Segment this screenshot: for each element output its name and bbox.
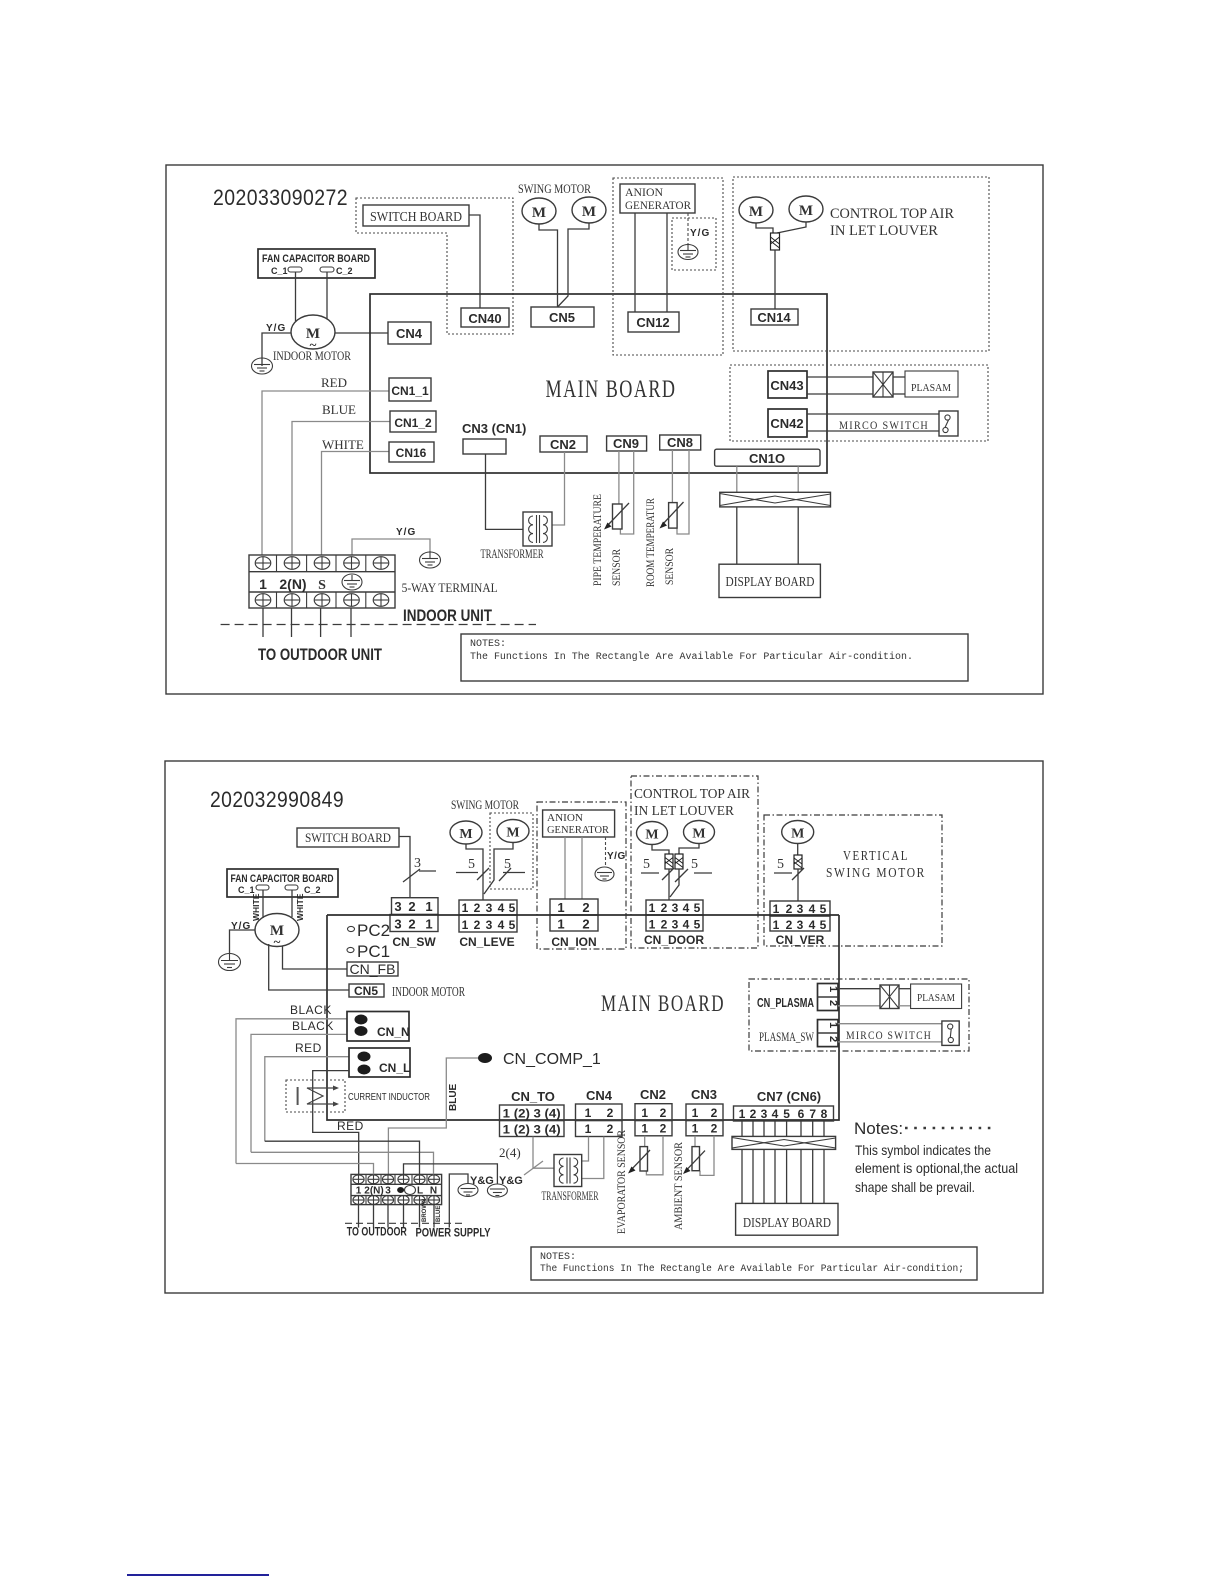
- svg-text:1: 1: [739, 1107, 746, 1121]
- svg-text:CN_SW: CN_SW: [392, 935, 436, 949]
- bus marker 5 vertical: [774, 857, 804, 880]
- svg-text:FAN CAPACITOR BOARD: FAN CAPACITOR BOARD: [231, 873, 334, 885]
- svg-text:~: ~: [274, 934, 281, 949]
- svg-text:CN3: CN3: [691, 1087, 717, 1102]
- connector CN3 b: [686, 1087, 723, 1136]
- wire C_2 to motor: [326, 272, 328, 319]
- capacitor C_1: [288, 267, 302, 272]
- wire CN2 to transformer: [552, 452, 564, 525]
- svg-text:SWITCH BOARD: SWITCH BOARD: [370, 210, 462, 225]
- svg-text:CN14: CN14: [757, 310, 791, 325]
- svg-text:1: 1: [557, 900, 564, 915]
- svg-text:3: 3: [672, 918, 679, 932]
- screw terminals top row: [255, 557, 389, 570]
- wire CN8 pin2: [677, 450, 689, 534]
- svg-text:CN12: CN12: [636, 315, 669, 330]
- svg-text:CN8: CN8: [667, 435, 693, 450]
- connector CN_LEVE: [459, 900, 517, 949]
- connector CN4: [388, 322, 431, 344]
- svg-text:RED: RED: [295, 1041, 322, 1055]
- svg-text:4: 4: [809, 918, 816, 932]
- svg-text:M: M: [582, 204, 596, 220]
- wire plasma a: [838, 988, 880, 990]
- svg-text:PLASAM: PLASAM: [911, 382, 951, 394]
- svg-text:CN9: CN9: [613, 436, 639, 451]
- leads to outdoor: [359, 1205, 404, 1228]
- svg-text:CN_ION: CN_ION: [551, 935, 596, 949]
- wire anion pin2: [666, 213, 668, 312]
- svg-text:3: 3: [486, 918, 493, 932]
- wire black 1: [236, 1019, 347, 1164]
- svg-text:INDOOR MOTOR: INDOOR MOTOR: [392, 985, 465, 1000]
- louver motor M-C: [739, 197, 773, 223]
- wire CN10 b: [797, 466, 799, 492]
- svg-text:4: 4: [809, 902, 816, 916]
- svg-text:Notes:: Notes:: [854, 1119, 903, 1138]
- dotted box optional motor: [490, 813, 533, 889]
- svg-text:3: 3: [385, 1186, 391, 1197]
- connector PLASMA_SW pins: [818, 1020, 840, 1047]
- wire CN43 b: [807, 393, 873, 395]
- wire red1 to screw L: [265, 1141, 420, 1174]
- svg-text:5: 5: [509, 918, 516, 932]
- wire C_1 to motor: [295, 272, 297, 321]
- connector CN_VER: [770, 901, 830, 947]
- svg-text:1: 1: [356, 1186, 362, 1197]
- svg-text:2: 2: [661, 918, 668, 932]
- plasma lamp symbol 2: [880, 985, 899, 1009]
- svg-text:PC1: PC1: [357, 942, 390, 961]
- louver motor M-G: [637, 822, 668, 845]
- svg-text:1: 1: [425, 899, 432, 914]
- fan capacitor board 2: [227, 869, 338, 897]
- svg-text:2: 2: [750, 1107, 757, 1121]
- wire CN4b pin2 to transformer2: [582, 1137, 604, 1179]
- wires CN7 to ribbon: [742, 1121, 824, 1136]
- connector CN7 (CN6): [734, 1089, 834, 1121]
- connector CN_DOOR: [644, 900, 704, 947]
- svg-text:1: 1: [692, 1122, 699, 1136]
- svg-text:3: 3: [394, 917, 401, 932]
- svg-text:C_1: C_1: [238, 885, 255, 895]
- wires to outdoor unit: [263, 608, 351, 637]
- svg-text:CN_TO: CN_TO: [511, 1089, 555, 1104]
- svg-text:CN43: CN43: [770, 378, 803, 393]
- svg-text:4: 4: [683, 918, 690, 932]
- svg-text:2: 2: [474, 901, 481, 915]
- main board 2 outline: [327, 915, 839, 1120]
- wire motor I to fuse: [797, 844, 799, 856]
- wire CN2b pin1: [644, 1136, 646, 1147]
- frame of diagram 2: [165, 761, 1043, 1293]
- terminal2 labels: [356, 1186, 437, 1197]
- display board 1: [719, 564, 820, 597]
- anion generator U-AG1: [620, 184, 695, 213]
- screw terminals bottom row: [255, 594, 389, 607]
- ground G6: [595, 867, 614, 881]
- svg-text:EVAPORATOR SENSOR: EVAPORATOR SENSOR: [614, 1130, 628, 1234]
- svg-text:1: 1: [585, 1106, 592, 1120]
- connector CN1_1: [389, 378, 431, 401]
- svg-text:INDOOR MOTOR: INDOOR MOTOR: [273, 348, 351, 363]
- wire red 1: [265, 1057, 349, 1142]
- svg-text:Y/G: Y/G: [690, 228, 710, 239]
- capacitor C_2: [320, 267, 334, 272]
- wire fuse to CN14: [774, 250, 776, 309]
- svg-text:4: 4: [498, 901, 505, 915]
- thermal fuse F3: [665, 854, 673, 869]
- wire Y/G to terminal: [352, 539, 430, 555]
- wire symbol to plasam b: [893, 393, 905, 395]
- svg-text:2: 2: [711, 1106, 718, 1120]
- svg-text:CN5: CN5: [549, 310, 575, 325]
- connector CN14: [751, 309, 798, 325]
- ground G4 Y&G: [458, 1184, 478, 1197]
- svg-text:VERTICAL: VERTICAL: [843, 849, 909, 864]
- wire red: [262, 391, 389, 555]
- svg-text:3: 3: [672, 901, 679, 915]
- svg-text:2: 2: [582, 917, 589, 932]
- svg-text:5-WAY TERMINAL: 5-WAY TERMINAL: [402, 580, 498, 595]
- svg-text:This symbol indicates the: This symbol indicates the: [855, 1142, 991, 1158]
- svg-text:ROOM TEMPERATUR: ROOM TEMPERATUR: [643, 498, 657, 587]
- ground G1: [252, 358, 273, 374]
- svg-text:M: M: [799, 203, 813, 219]
- connector CN_ION: [550, 899, 598, 949]
- wire band to display b: [797, 507, 799, 564]
- svg-text:CURRENT INDUCTOR: CURRENT INDUCTOR: [348, 1092, 430, 1103]
- connector CN2 b: [635, 1087, 672, 1136]
- connector CN3: [463, 439, 506, 454]
- svg-text:M: M: [791, 827, 804, 842]
- terminal block 2: [351, 1174, 442, 1204]
- notes box 2: [531, 1247, 977, 1280]
- thermistor ambient: [683, 1147, 705, 1174]
- wire CN3b pin1: [694, 1136, 696, 1147]
- svg-text:SWING MOTOR: SWING MOTOR: [826, 866, 926, 881]
- svg-text:2(4): 2(4): [499, 1145, 521, 1160]
- svg-text:GENERATOR: GENERATOR: [625, 198, 691, 212]
- earth lead power supply: [449, 1174, 468, 1228]
- wire red 2 through inductor: [313, 1071, 359, 1175]
- swing motor M-A: [522, 198, 556, 224]
- svg-text:CN1_1: CN1_1: [391, 384, 429, 398]
- svg-text:FAN CAPACITOR BOARD: FAN CAPACITOR BOARD: [262, 253, 370, 265]
- connector CN_COMP_1: [478, 1051, 601, 1068]
- anion generator 2: [543, 810, 615, 837]
- connector CN40: [461, 308, 509, 327]
- connector CN4 b: [576, 1088, 623, 1137]
- svg-text:BLACK: BLACK: [290, 1003, 332, 1017]
- svg-text:NOTES:: NOTES:: [470, 639, 506, 650]
- svg-text:C_2: C_2: [336, 266, 353, 276]
- blue footer line: [127, 1574, 269, 1576]
- wire symbol to plasam a: [893, 376, 905, 378]
- terminal labels 1 2(N) S: [259, 576, 326, 593]
- connector CN5: [531, 307, 594, 327]
- wire symbol to plasam2 b: [899, 1005, 911, 1007]
- wire CN3b pin2: [700, 1136, 714, 1176]
- svg-text:6: 6: [798, 1107, 805, 1121]
- svg-text:5: 5: [694, 918, 701, 932]
- svg-text:The Functions In The Rectangle: The Functions In The Rectangle Are Avail…: [470, 651, 913, 663]
- thermistor evaporator: [628, 1147, 650, 1174]
- thermal fuse F1: [771, 233, 780, 250]
- wire CN2b pin2: [646, 1136, 663, 1175]
- wire anion2 pin2: [581, 837, 583, 899]
- svg-text:5: 5: [643, 857, 650, 872]
- svg-text:2: 2: [711, 1122, 718, 1136]
- svg-text:MAIN BOARD: MAIN BOARD: [601, 991, 725, 1016]
- svg-text:RED: RED: [321, 375, 347, 390]
- svg-text:CN_L: CN_L: [379, 1061, 410, 1075]
- wire motor F merge: [484, 843, 513, 894]
- bus marker 5 right: [499, 857, 525, 881]
- transformer T2: [554, 1155, 582, 1187]
- svg-text:Y/G: Y/G: [396, 527, 416, 538]
- svg-text:1: 1: [557, 917, 564, 932]
- connector CN43: [768, 371, 807, 398]
- svg-text:2: 2: [660, 1122, 667, 1136]
- bus marker 3: [403, 856, 436, 882]
- wire blue: [292, 422, 390, 556]
- wire motor G to fuse: [652, 845, 669, 855]
- wire black 2: [251, 1034, 347, 1152]
- connector CN_SW: [390, 898, 438, 949]
- svg-text:1: 1: [425, 917, 432, 932]
- label PC2: [348, 921, 391, 940]
- dash-dot box plasma 2: [749, 979, 969, 1051]
- svg-text:ANION: ANION: [625, 185, 663, 199]
- svg-text:5: 5: [694, 901, 701, 915]
- current inductor L1: [286, 1080, 345, 1112]
- ground G7: [219, 953, 241, 971]
- box PLASAM 2: [911, 984, 962, 1009]
- svg-text:M: M: [749, 204, 763, 220]
- svg-text:2: 2: [474, 918, 481, 932]
- notes box 1: [461, 634, 968, 681]
- svg-text:CN42: CN42: [770, 416, 803, 431]
- svg-text:CN_LEVE: CN_LEVE: [459, 935, 514, 949]
- svg-text:202032990849: 202032990849: [210, 787, 344, 812]
- connector CN1_2: [390, 411, 436, 432]
- bus marker 2(4): [499, 1145, 543, 1175]
- svg-text:MIRCO SWITCH: MIRCO SWITCH: [839, 418, 929, 432]
- svg-text:Y/G: Y/G: [607, 851, 626, 862]
- svg-text:1: 1: [462, 918, 469, 932]
- svg-text:N: N: [430, 1186, 437, 1197]
- svg-text:CN_COMP_1: CN_COMP_1: [503, 1051, 601, 1068]
- svg-text:1: 1: [649, 918, 656, 932]
- svg-text:1: 1: [641, 1106, 648, 1120]
- wire motor2 to CN_FB: [283, 946, 348, 969]
- svg-text:2(N): 2(N): [279, 576, 306, 592]
- svg-text:5: 5: [504, 857, 511, 872]
- bus marker 5 left: [456, 857, 489, 880]
- svg-text:7: 7: [809, 1107, 816, 1121]
- wire CN8 pin1: [671, 450, 673, 503]
- svg-text:TO OUTDOOR UNIT: TO OUTDOOR UNIT: [258, 645, 382, 664]
- wire CN_TO to transformer2: [533, 1137, 554, 1169]
- screws terminal2 bottom row: [353, 1196, 440, 1205]
- svg-text:2: 2: [582, 900, 589, 915]
- wire louver motor C: [756, 223, 773, 233]
- svg-text:shape shall be prevail.: shape shall be prevail.: [855, 1179, 975, 1195]
- svg-text:CN4: CN4: [586, 1088, 613, 1103]
- svg-text:DISPLAY BOARD: DISPLAY BOARD: [743, 1216, 831, 1231]
- svg-text:5: 5: [777, 857, 784, 872]
- indoor motor M2: [255, 914, 299, 950]
- svg-text:3: 3: [394, 899, 401, 914]
- svg-text:2: 2: [827, 1000, 839, 1006]
- swing motor M-B: [572, 197, 606, 223]
- wire CN42 a: [807, 413, 939, 415]
- svg-text:1: 1: [259, 576, 267, 592]
- wire C_2b to motor: [291, 890, 293, 917]
- bus marker 5 door-left: [641, 857, 674, 880]
- svg-text:3: 3: [761, 1107, 768, 1121]
- wire CN42 b: [807, 430, 939, 432]
- svg-text:CN2: CN2: [640, 1087, 666, 1102]
- svg-text:SENSOR: SENSOR: [609, 549, 623, 586]
- frame of diagram 1: [166, 165, 1043, 694]
- main board 2 top edge: [327, 914, 839, 916]
- notes optional symbol text: [854, 1119, 1018, 1195]
- svg-text:1: 1: [585, 1122, 592, 1136]
- wire anion pin1: [634, 213, 636, 312]
- dotted box plasma option: [730, 365, 988, 441]
- svg-text:1: 1: [692, 1106, 699, 1120]
- svg-text:M: M: [645, 828, 658, 843]
- svg-text:2: 2: [786, 918, 793, 932]
- svg-text:BLUE: BLUE: [322, 402, 356, 417]
- dotted outline switch-board group: [356, 198, 513, 334]
- svg-text:1: 1: [827, 986, 839, 992]
- svg-text:CN_VER: CN_VER: [776, 933, 825, 947]
- svg-text:RED: RED: [337, 1119, 364, 1133]
- connector CN8: [660, 435, 701, 450]
- svg-text:2: 2: [660, 1106, 667, 1120]
- connector CN2: [540, 436, 587, 452]
- svg-text:TRANSFORMER: TRANSFORMER: [542, 1188, 599, 1203]
- dotted box control top air: [733, 177, 989, 351]
- svg-text:CN40: CN40: [468, 311, 501, 326]
- swing motor M-F optional: [497, 820, 529, 843]
- svg-text:TO OUTDOOR: TO OUTDOOR: [347, 1225, 407, 1239]
- svg-text:BROWN: BROWN: [422, 1199, 428, 1222]
- fan capacitor board FB1: [258, 249, 375, 278]
- wire plasma sw b: [838, 1041, 942, 1043]
- svg-text:4: 4: [498, 918, 505, 932]
- svg-text:S: S: [318, 578, 326, 593]
- svg-text:The Functions In The Rectangle: The Functions In The Rectangle Are Avail…: [540, 1263, 964, 1275]
- transformer T1: [523, 512, 552, 546]
- svg-text:WHITE: WHITE: [322, 437, 364, 452]
- svg-text:BLACK: BLACK: [292, 1019, 334, 1033]
- svg-text:CN_DOOR: CN_DOOR: [644, 933, 704, 947]
- svg-text:1: 1: [641, 1122, 648, 1136]
- swing motor M-E: [450, 821, 482, 844]
- connector CN16: [389, 442, 434, 462]
- svg-text:INDOOR UNIT: INDOOR UNIT: [403, 606, 492, 625]
- svg-text:C_2: C_2: [304, 885, 321, 895]
- svg-text:TRANSFORMER: TRANSFORMER: [481, 546, 544, 561]
- svg-text:WHITE: WHITE: [251, 893, 261, 921]
- leads power supply: [420, 1205, 435, 1228]
- svg-text:1: 1: [827, 1022, 839, 1028]
- svg-text:M: M: [532, 205, 546, 221]
- dashed separator 2: [345, 1222, 464, 1224]
- wire motor H to fuse: [679, 844, 699, 856]
- svg-text:5: 5: [691, 857, 698, 872]
- svg-text:SWITCH BOARD: SWITCH BOARD: [305, 830, 391, 845]
- wire motor2 to CN5b: [269, 944, 349, 990]
- thermal fuse F4: [675, 854, 683, 869]
- svg-text:CN5: CN5: [354, 984, 378, 998]
- svg-text:WHITE: WHITE: [295, 893, 305, 921]
- wire black1 to screw2: [236, 1164, 374, 1175]
- dotted box anion generator: [613, 178, 723, 355]
- ground G2: [678, 244, 698, 260]
- svg-text:POWER SUPPLY: POWER SUPPLY: [416, 1226, 491, 1240]
- svg-text:1 (2) 3 (4): 1 (2) 3 (4): [503, 1125, 561, 1137]
- svg-text:3: 3: [797, 918, 804, 932]
- plasma lamp symbol: [873, 372, 893, 397]
- connector CN_L: [349, 1048, 410, 1077]
- wire switch board 2 to CN_SW: [399, 837, 410, 899]
- wire switch board to CN40: [469, 215, 480, 308]
- capacitor C_1 b: [256, 885, 269, 890]
- svg-text:4: 4: [683, 901, 690, 915]
- wire C_1b to motor: [262, 890, 264, 918]
- svg-text:BLUE: BLUE: [436, 1206, 442, 1222]
- svg-text:202033090272: 202033090272: [213, 185, 348, 210]
- svg-text:2: 2: [408, 899, 415, 914]
- wire anion2 pin1: [564, 837, 566, 899]
- connector CN9: [607, 436, 647, 451]
- dash-dot box vertical swing motor: [764, 815, 942, 946]
- svg-text:CN7 (CN6): CN7 (CN6): [757, 1089, 821, 1104]
- label PC1: [347, 942, 390, 961]
- wire swing motor B to CN5: [558, 223, 589, 307]
- svg-text:1: 1: [649, 901, 656, 915]
- dash-dot box control top air 2: [631, 776, 758, 948]
- svg-text:PIPE TEMPERATURE: PIPE TEMPERATURE: [590, 494, 604, 586]
- svg-text:C_1: C_1: [271, 266, 288, 276]
- svg-text:IN LET LOUVER: IN LET LOUVER: [634, 804, 735, 819]
- wire CN10 a: [736, 466, 738, 492]
- main board outline: [370, 294, 827, 473]
- svg-text:M: M: [459, 827, 472, 842]
- svg-text:PC2: PC2: [357, 921, 390, 940]
- svg-text:3: 3: [797, 902, 804, 916]
- svg-text:2: 2: [661, 901, 668, 915]
- switch board 2: [297, 828, 399, 847]
- svg-text:AMBIENT SENSOR: AMBIENT SENSOR: [671, 1142, 685, 1230]
- svg-text:PLASAM: PLASAM: [917, 992, 955, 1004]
- wire black2 to screw N: [251, 1152, 434, 1174]
- wire CN9 pin2: [620, 451, 633, 534]
- connector CN5 b: [349, 984, 384, 998]
- louver motor M-H: [684, 821, 715, 844]
- wire plasma sw a: [838, 1023, 942, 1025]
- svg-text:1: 1: [773, 902, 780, 916]
- svg-text:2: 2: [786, 902, 793, 916]
- svg-text:3: 3: [486, 901, 493, 915]
- svg-text:5: 5: [509, 901, 516, 915]
- svg-text:4: 4: [772, 1107, 779, 1121]
- wire white: [322, 452, 390, 556]
